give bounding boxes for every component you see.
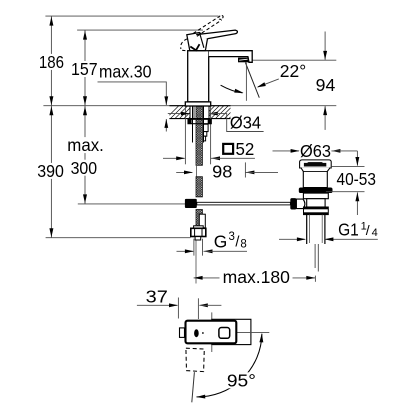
handle lever blade — [196, 30, 237, 39]
drain rubber gasket — [299, 188, 333, 194]
svg-text:157: 157 — [71, 59, 98, 79]
svg-text:37: 37 — [146, 287, 168, 307]
horizontal pull rod to drain — [197, 202, 291, 205]
handle hinge gap — [190, 44, 199, 50]
svg-text:Ø63: Ø63 — [300, 141, 331, 161]
svg-text:Ø34: Ø34 — [230, 112, 262, 132]
rod guide fitting — [199, 214, 205, 228]
dimension max.300 — [84, 106, 86, 204]
svg-text:G: G — [214, 231, 228, 251]
svg-text:186: 186 — [39, 52, 64, 72]
hose collar — [194, 226, 204, 229]
flexible hose middle segment — [196, 177, 202, 197]
dimension 186 — [50, 16, 52, 106]
svg-text:max.180: max.180 — [223, 267, 290, 287]
extension line top of lever (157 level) — [77, 29, 203, 31]
extension line countertop level — [43, 105, 336, 107]
dimension G3/8 — [177, 250, 194, 252]
extension line aerator level (94) — [252, 59, 336, 61]
extension line top of raised handle (186 level) — [45, 15, 218, 17]
drain clamp upper — [303, 193, 328, 199]
svg-text:max.: max. — [67, 135, 104, 155]
dimension Ø34 (hole) leader — [168, 113, 189, 115]
faucet body — [188, 51, 209, 102]
dimension extension lines for square 52 base — [184, 106, 186, 164]
dimension Ø63 — [273, 150, 300, 152]
dimension 98 — [176, 171, 192, 173]
extension line max.300 level — [78, 203, 185, 205]
vertical reference line at aerator — [245, 63, 247, 101]
svg-text:22°: 22° — [280, 61, 306, 81]
mounting bracket — [204, 124, 209, 131]
bottom view: dashed rotated handle — [186, 348, 204, 371]
svg-text:95°: 95° — [227, 370, 256, 390]
extension line 390 level — [46, 237, 191, 239]
drain lever ball joint — [296, 199, 305, 209]
bottom view: projection tick above body — [211, 312, 213, 319]
dimension 37 — [177, 298, 179, 319]
bottom view: cartridge square — [219, 328, 230, 339]
mounting washer under deck — [188, 119, 211, 123]
svg-text:/: / — [366, 222, 370, 238]
pop-up drain flange cap — [300, 160, 332, 168]
spout — [209, 51, 253, 63]
dimension square-52 — [163, 157, 185, 159]
dimension 157 — [84, 30, 86, 106]
svg-text:300: 300 — [71, 158, 98, 178]
dimension max.180 — [194, 277, 220, 279]
svg-text:98: 98 — [212, 162, 232, 182]
drain rod knob — [290, 198, 296, 209]
swivel arc arrow under spout — [221, 85, 243, 93]
flexible hose upper segment — [196, 107, 202, 166]
water stream line at 22 deg — [245, 63, 259, 98]
handle knuckle — [187, 33, 208, 51]
drain tailpipe — [306, 215, 308, 244]
svg-text:4: 4 — [372, 227, 378, 239]
centerline through hose gap — [195, 164, 197, 178]
95 degree arc — [197, 334, 262, 397]
svg-text:3: 3 — [229, 231, 235, 243]
hose end stub — [195, 237, 201, 240]
countertop cross-section with hatch — [169, 105, 230, 107]
bottom view: body square — [212, 319, 251, 344]
drain clamp lower — [307, 199, 325, 207]
bottom view: left tab — [180, 328, 185, 338]
svg-text:G1: G1 — [338, 220, 359, 240]
aerator — [238, 58, 249, 63]
dimension 94 — [324, 32, 326, 60]
pull rod tee coupling — [185, 199, 197, 208]
base plate — [185, 102, 210, 106]
svg-text:40-53: 40-53 — [337, 169, 376, 189]
bottom view: handle centerline — [192, 372, 195, 402]
drain neck — [301, 168, 330, 188]
bottom view: rod hole — [194, 329, 199, 337]
bottom view: hidden edge tick below body — [211, 345, 213, 352]
threaded shank walls — [192, 106, 194, 142]
svg-text:94: 94 — [316, 75, 336, 95]
dimension 40-53 — [356, 151, 358, 166]
dimension 390 — [50, 106, 52, 238]
svg-text:390: 390 — [37, 161, 64, 181]
bottom view: centerline — [235, 331, 269, 333]
bottom view: handle lever (thick) — [186, 321, 237, 344]
svg-text:52: 52 — [236, 139, 255, 159]
dashed raised handle — [193, 17, 219, 34]
svg-text:max.30: max.30 — [99, 61, 152, 81]
drain plug slot — [307, 161, 323, 164]
G3/8 hex fitting — [191, 228, 206, 236]
drain nut — [304, 207, 329, 215]
centerline below fitting — [195, 240, 197, 283]
flexible hose lower segment — [196, 210, 202, 227]
svg-text:8: 8 — [240, 239, 246, 251]
